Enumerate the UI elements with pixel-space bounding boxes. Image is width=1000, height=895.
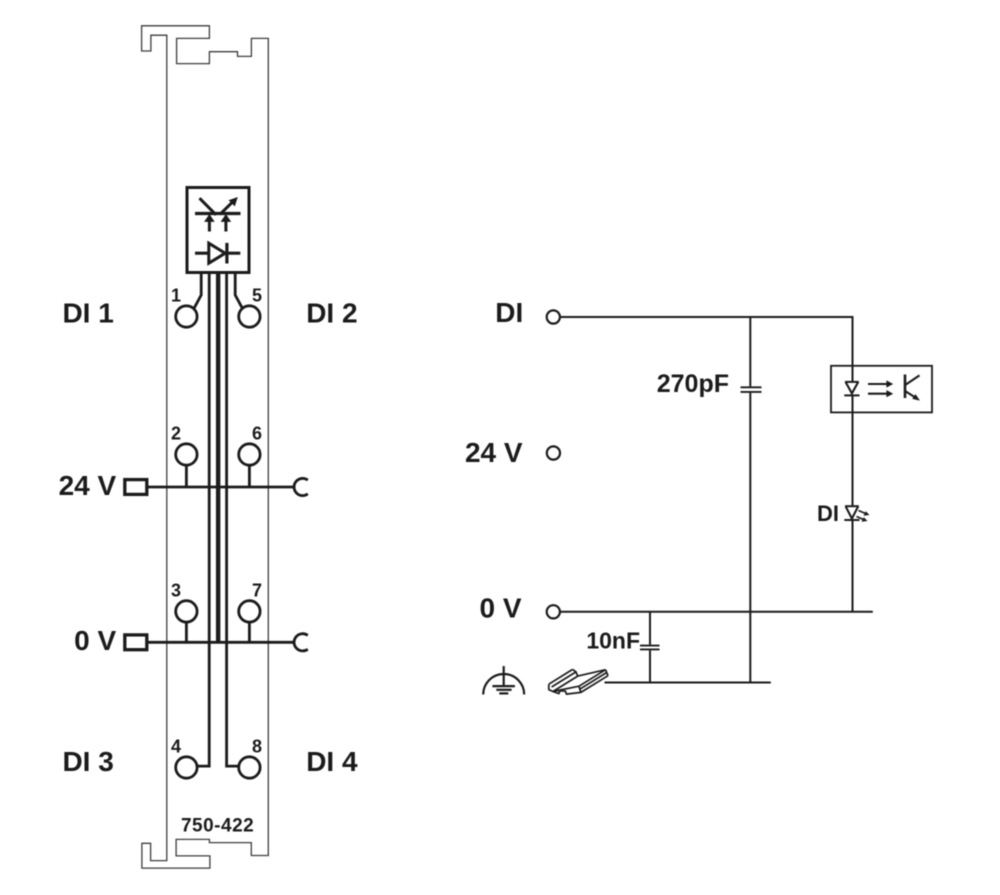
- wire bus to 24V rail (left of pair): [216, 273, 218, 643]
- wire 10nF branch upper: [649, 612, 651, 645]
- terminal 8: [239, 757, 260, 778]
- svg-text:0 V: 0 V: [74, 625, 116, 656]
- svg-text:0 V: 0 V: [479, 593, 521, 624]
- opto arrow 2: [868, 393, 887, 395]
- capacitor C1 270pF: [741, 386, 762, 388]
- terminal 2: [176, 444, 197, 465]
- wire 270pF branch lower: [749, 393, 751, 683]
- 24V hook: [294, 478, 308, 495]
- wire bus to 0V rail (right of pair): [218, 273, 220, 643]
- svg-text:DI 4: DI 4: [306, 746, 358, 777]
- box diode D1: [195, 252, 240, 255]
- terminal 3: [176, 601, 197, 622]
- svg-text:6: 6: [252, 424, 262, 444]
- node 24V: [547, 446, 560, 459]
- box top symbol: plain diagonal: [200, 198, 217, 215]
- svg-text:DI: DI: [495, 297, 523, 328]
- svg-text:10nF: 10nF: [586, 628, 640, 654]
- svg-text:270pF: 270pF: [657, 370, 729, 398]
- 0V feed line: [147, 641, 295, 644]
- ground symbol: [503, 666, 505, 686]
- wire pin1 from box: [194, 273, 202, 309]
- wire DI line: [560, 316, 852, 318]
- opto LED: [845, 381, 859, 383]
- electronics box U1: [187, 188, 249, 273]
- stub terminal 7 to 0V line: [248, 622, 251, 643]
- svg-text:DI 1: DI 1: [62, 298, 113, 329]
- wire pin5 from box: [235, 273, 243, 309]
- box top symbol: arrow diagonal: [221, 202, 232, 213]
- terminal 4: [176, 757, 197, 778]
- wire opto branch: [852, 316, 854, 382]
- terminal 7: [239, 601, 260, 622]
- wire bus to pin 8: [227, 273, 239, 767]
- svg-text:8: 8: [252, 737, 262, 757]
- stub terminal 2 to 24V line: [185, 465, 188, 487]
- earth rail line: [605, 682, 771, 684]
- terminal 6: [239, 444, 260, 465]
- wire 0V line: [560, 611, 873, 613]
- wire 270pF branch upper: [749, 317, 751, 386]
- 0V flag: [125, 635, 147, 650]
- box top symbol: baseline: [195, 212, 241, 215]
- LED D2 status indicator: [845, 505, 859, 507]
- stub terminal 6 to 24V line: [248, 465, 251, 487]
- wire 10nF branch lower: [649, 650, 651, 682]
- svg-text:DI 3: DI 3: [62, 746, 113, 777]
- box top symbol: up arrow left: [208, 221, 211, 232]
- LED arrows: [859, 511, 866, 514]
- svg-text:24 V: 24 V: [59, 470, 117, 501]
- capacitor C2 10nF: [640, 645, 660, 647]
- opto phototransistor: [904, 375, 907, 399]
- 0V hook: [294, 634, 308, 651]
- svg-text:2: 2: [171, 424, 181, 444]
- node 0V: [547, 605, 560, 618]
- svg-text:4: 4: [171, 737, 181, 757]
- terminal 5: [239, 306, 260, 327]
- wire bus to pin 4: [197, 273, 209, 767]
- opto arrow 1: [868, 383, 887, 385]
- module outline 750-422: [142, 26, 269, 868]
- svg-text:DI 2: DI 2: [306, 298, 357, 329]
- svg-text:5: 5: [252, 286, 262, 306]
- svg-text:24 V: 24 V: [465, 437, 523, 468]
- svg-text:1: 1: [171, 286, 181, 306]
- 24V feed line: [147, 486, 295, 489]
- svg-text:7: 7: [252, 580, 262, 600]
- DIN rail icon: [549, 669, 608, 694]
- 24V flag: [125, 480, 147, 495]
- svg-text:DI: DI: [817, 501, 839, 526]
- node DI: [547, 310, 560, 323]
- optocoupler U2: [831, 366, 932, 413]
- svg-text:750-422: 750-422: [181, 815, 254, 836]
- box top symbol: up arrow right: [224, 221, 227, 232]
- terminal 1: [176, 306, 197, 327]
- stub terminal 3 to 0V line: [185, 622, 188, 643]
- svg-text:3: 3: [171, 580, 181, 600]
